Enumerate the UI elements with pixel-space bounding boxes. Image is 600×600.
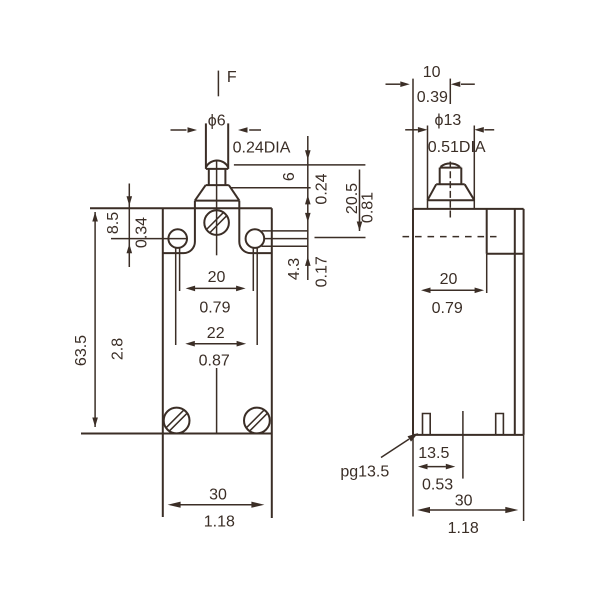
side cone top line xyxy=(436,183,465,185)
step vertical extension xyxy=(486,254,488,293)
svg-text:F: F xyxy=(227,69,237,86)
dim 20 front line xyxy=(195,287,237,289)
svg-text:10: 10 xyxy=(423,64,441,81)
side nut dome arc xyxy=(441,163,460,166)
svg-text:20: 20 xyxy=(208,269,226,286)
left ear hole xyxy=(168,229,187,248)
dim 20 side line xyxy=(430,289,475,291)
svg-text:6: 6 xyxy=(281,172,298,181)
svg-text:0.53: 0.53 xyxy=(422,477,453,494)
dim 22 line xyxy=(194,343,237,345)
front view body top edge xyxy=(90,207,272,209)
right slot inner line xyxy=(252,248,254,291)
left foot tab xyxy=(423,414,431,435)
dim 30 front line xyxy=(179,504,253,506)
dim 6 and 4.3 shared line xyxy=(307,136,309,280)
F force marker line xyxy=(217,71,219,97)
side view body left edge xyxy=(412,209,414,435)
bottom right screw xyxy=(244,408,270,434)
plunger top extension line xyxy=(234,164,366,166)
dim 10 line left xyxy=(386,83,401,85)
svg-text:0.87: 0.87 xyxy=(199,353,230,370)
svg-text:8.5: 8.5 xyxy=(105,212,122,234)
right hole center extension line xyxy=(264,238,308,240)
cone top line xyxy=(206,184,229,186)
svg-text:0.79: 0.79 xyxy=(432,300,463,317)
plunger left side xyxy=(205,123,207,168)
cone base extension line xyxy=(231,187,311,189)
left hole center extension line xyxy=(111,238,187,240)
side view body right edge xyxy=(523,209,525,435)
dim phi13 line right xyxy=(484,129,494,131)
dim 8.5 line xyxy=(128,184,130,268)
phi6 dimension line left xyxy=(171,129,187,131)
svg-text:0.24DIA: 0.24DIA xyxy=(233,140,291,157)
side cone right slant xyxy=(465,184,475,200)
front vertical center line lower segment xyxy=(216,368,218,434)
svg-text:22: 22 xyxy=(207,325,225,342)
conduit inner vertical edge xyxy=(514,209,516,435)
right slot outer line xyxy=(256,248,258,345)
step horizontal edge xyxy=(487,253,524,255)
left slot outer line xyxy=(175,248,177,345)
side nut right side xyxy=(460,168,462,185)
svg-text:30: 30 xyxy=(455,492,473,509)
bottom left screw xyxy=(164,408,190,434)
head screw xyxy=(204,210,229,235)
side view body bottom edge xyxy=(413,434,524,436)
phi6 dimension line right xyxy=(249,129,261,131)
dim 30 side line xyxy=(429,509,507,511)
side cone base line xyxy=(428,199,475,201)
side nut collar line xyxy=(440,167,462,169)
dim phi13 line left xyxy=(405,129,418,131)
plunger collar line xyxy=(206,168,228,170)
svg-text:4.3: 4.3 xyxy=(286,258,303,280)
front view body bottom edge xyxy=(81,433,273,435)
svg-text:30: 30 xyxy=(209,487,227,504)
svg-text:ϕ6: ϕ6 xyxy=(208,113,226,130)
front vertical center line upper segment xyxy=(216,160,218,256)
dim 13.5 line xyxy=(427,466,446,468)
plunger neck left xyxy=(208,169,210,185)
pg13.5 leader line xyxy=(381,439,409,457)
svg-text:0.17: 0.17 xyxy=(314,256,331,287)
front view body right edge xyxy=(271,208,273,518)
svg-text:20: 20 xyxy=(440,271,458,288)
svg-text:ϕ13: ϕ13 xyxy=(435,112,462,129)
side cone left slant xyxy=(428,184,437,200)
cone right slant xyxy=(229,185,240,201)
dim 10 line right xyxy=(461,83,475,85)
svg-text:13.5: 13.5 xyxy=(418,445,449,462)
side nut left side xyxy=(439,168,441,185)
step vertical edge xyxy=(486,209,488,254)
right ear hole xyxy=(246,229,265,248)
plunger right side xyxy=(227,123,229,168)
svg-text:0.39: 0.39 xyxy=(417,89,448,106)
dim 10 right reference line xyxy=(449,79,451,104)
left slot inner line xyxy=(179,248,181,291)
svg-text:63.5: 63.5 xyxy=(73,335,90,366)
side plunger base left extension xyxy=(427,126,429,209)
right ear inner edge with fillet xyxy=(239,201,271,254)
svg-text:0.79: 0.79 xyxy=(199,300,230,317)
right hole lower extension line xyxy=(262,245,308,247)
svg-text:0.34: 0.34 xyxy=(134,217,151,248)
dim 20.5 bottom reference line xyxy=(315,237,366,239)
side view body top edge xyxy=(413,208,524,210)
svg-text:1.18: 1.18 xyxy=(448,520,479,537)
svg-text:1.18: 1.18 xyxy=(204,513,235,530)
plunger neck right xyxy=(224,169,226,185)
dim 20.5 line xyxy=(359,170,361,232)
right foot tab xyxy=(496,414,504,435)
dim 63.5 line xyxy=(94,212,96,427)
side view right edge lower extension xyxy=(523,435,525,521)
svg-text:0.81: 0.81 xyxy=(359,192,376,223)
right hole upper extension line xyxy=(262,230,308,232)
side view left edge upper extension xyxy=(412,79,414,209)
svg-text:0.24: 0.24 xyxy=(314,173,331,204)
cone base line xyxy=(195,200,239,202)
side plunger base right extension xyxy=(473,126,475,209)
svg-text:0.51DIA: 0.51DIA xyxy=(428,139,486,156)
side view left edge lower extension xyxy=(412,435,414,517)
mounting plane dashed line xyxy=(403,236,497,238)
svg-text:pg13.5: pg13.5 xyxy=(340,464,389,481)
plunger dome arc xyxy=(206,160,228,167)
front view body left edge xyxy=(162,208,164,517)
conduit center line xyxy=(462,411,464,479)
side plunger dashed center line xyxy=(449,162,451,218)
left ear inner edge with fillet xyxy=(163,201,195,254)
cone left slant xyxy=(195,185,206,201)
svg-text:2.8: 2.8 xyxy=(110,338,127,360)
